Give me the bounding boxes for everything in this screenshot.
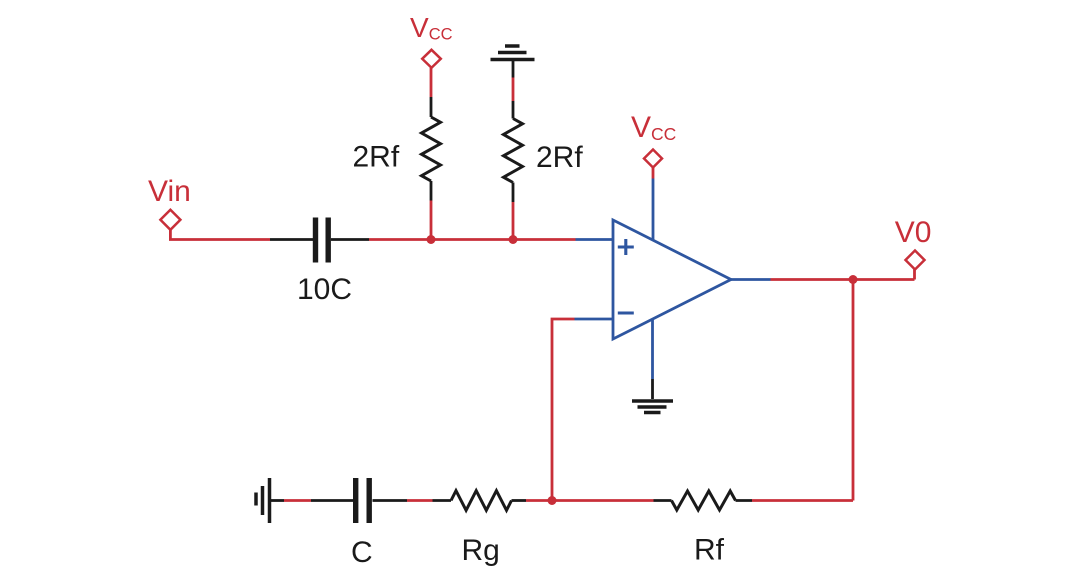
svg-text:Rg: Rg: [462, 534, 500, 567]
svg-text:Vin: Vin: [148, 175, 191, 208]
svg-text:10C: 10C: [297, 273, 352, 306]
svg-text:C: C: [351, 536, 373, 569]
svg-text:Rf: Rf: [694, 534, 725, 567]
svg-text:V0: V0: [895, 216, 932, 249]
svg-text:2Rf: 2Rf: [536, 141, 583, 174]
svg-text:2Rf: 2Rf: [353, 140, 400, 173]
